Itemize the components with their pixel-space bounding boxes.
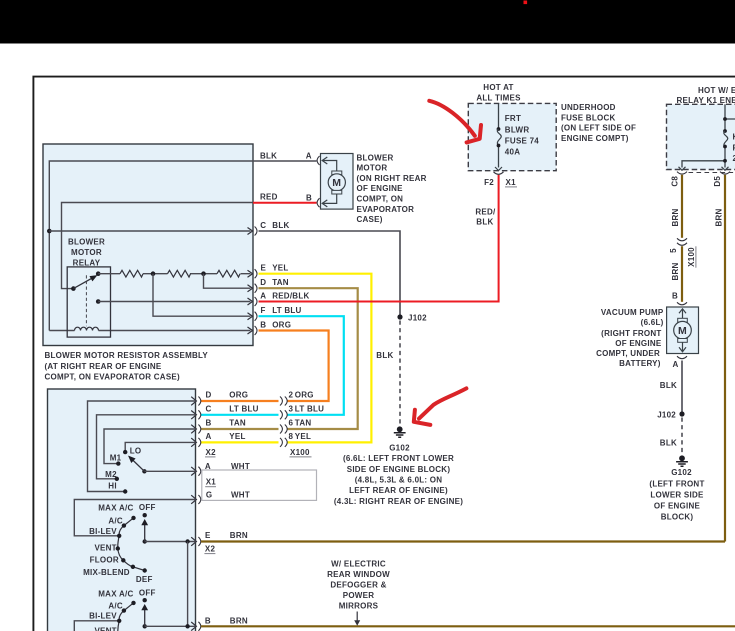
svg-text:BLOWER: BLOWER [357,153,394,162]
label G102 caption (right) [649,468,704,522]
wire BRN from D5 down to E BRN row [724,175,726,542]
svg-text:WHT: WHT [231,462,250,471]
wire WHT loop pin A to pin G [202,470,317,500]
svg-text:B: B [205,617,211,626]
connector arc pump pin A [677,356,687,359]
label M2 [105,470,117,479]
svg-text:OF ENGINE: OF ENGINE [654,501,701,510]
connector arcs at resistor box edge [255,227,257,336]
svg-text:WHT: WHT [231,491,250,500]
mode switch 2 feed loop [74,621,119,631]
svg-text:E: E [205,531,211,540]
wire C BLK row inside box [49,230,250,232]
label BRN (rotated, D5 wire) [714,208,723,226]
label wire RED/BLK [475,208,496,227]
wire B BRN row (exits right) [201,625,735,627]
svg-text:2: 2 [289,391,294,400]
wire BLK bus inside resistor box (left vertical + top row to pin A) [49,161,253,331]
relay NC contact node [96,299,101,304]
wire RED feed to relay common [62,203,254,289]
svg-text:FUSE BLOCK: FUSE BLOCK [561,113,616,122]
label VACUUM PUMP caption [596,308,664,368]
svg-text:HOT AT: HOT AT [483,83,513,92]
relay K1 fuse element [723,117,728,163]
svg-text:(LEFT FRONT: (LEFT FRONT [649,479,704,488]
label blower motor caption [357,153,427,224]
svg-text:G102: G102 [671,468,692,477]
wire BRN from C8 to X100 connector [681,175,683,238]
svg-text:5: 5 [669,248,678,253]
label wire RED / pin B [260,193,312,203]
lower connector X100 double arcs (pins 2,3,6,8) [280,397,287,447]
label F2 [484,178,494,187]
red cursor dot marker [524,1,528,5]
svg-text:A: A [672,360,678,369]
svg-text:8: 8 [289,432,294,441]
svg-text:COMPT, ON EVAPORATOR CASE): COMPT, ON EVAPORATOR CASE) [45,373,180,382]
connector F2/X1 arc with tail [494,172,504,175]
wire BLK dashed to ground G102 (right) [681,418,683,455]
wire tap1 to F LT BLU pin [153,274,251,317]
svg-text:BLOWER MOTOR RESISTOR ASSEMBLY: BLOWER MOTOR RESISTOR ASSEMBLY [45,351,209,360]
svg-text:J102: J102 [408,313,427,322]
svg-text:(ON RIGHT REAR: (ON RIGHT REAR [357,174,427,183]
svg-text:F2: F2 [484,178,494,187]
vacuum pump internal leads with arrows [679,309,686,352]
svg-text:40A: 40A [505,147,520,156]
svg-text:X1: X1 [206,478,217,487]
wire BLK dashed to ground G102 (left) [399,321,401,426]
svg-text:BRN: BRN [714,208,723,226]
svg-text:TAN: TAN [229,418,246,427]
label BRN (rotated, pump feed) [671,262,680,280]
label wire BLK / pin A [260,151,312,160]
svg-text:ORG: ORG [295,391,314,400]
label BRN (rotated, C8 wire) [671,208,680,226]
vacuum pump motor M symbol [674,318,692,342]
svg-text:LT BLU: LT BLU [229,404,258,413]
blower motor box [321,154,354,210]
fuse output arrow into connector [495,167,502,171]
HVAC control (mode/fan switch) module box [48,389,196,631]
fan switch lever with arrow [129,456,147,473]
vacuum pump box [667,307,699,354]
svg-text:BLK: BLK [660,381,677,390]
svg-text:M2: M2 [105,470,117,479]
svg-text:(RIGHT FRONT: (RIGHT FRONT [601,329,661,338]
label pin 6 TAN [289,418,312,427]
label X2 (underlined, E BRN row) [204,545,215,554]
mode switch 2 wiper wire to pin B BRN [145,625,196,627]
svg-text:DEFOGGER &: DEFOGGER & [330,581,386,590]
wire coil bottom row to B ORG pin [49,330,250,332]
label LO [130,446,142,455]
svg-text:MAX A/C: MAX A/C [98,504,133,513]
label J102 (right) [657,410,676,419]
node: BLK bus / C BLK junction [47,229,52,234]
svg-text:BRN: BRN [671,208,680,226]
svg-text:UNDERHOOD: UNDERHOOD [561,103,616,112]
label M1 [110,453,122,462]
underhood fuse block 2 (relay K1, dashed, clipped right) [667,104,735,169]
svg-text:LEFT REAR OF ENGINE): LEFT REAR OF ENGINE) [349,486,448,495]
pin D5 exit arrow [722,167,729,171]
svg-text:FLOOR: FLOOR [90,556,119,565]
svg-text:X100: X100 [687,247,696,267]
svg-text:X100: X100 [290,448,310,457]
svg-text:BLK: BLK [660,438,677,447]
relay switch lever with arrow [73,276,96,289]
label pin A wire YEL (lower) [206,432,246,441]
svg-text:D5: D5 [713,176,722,187]
wire BLK to blower motor pin A [253,160,317,162]
wire D TAN run [201,288,358,429]
resistor R3 [217,270,240,277]
wire F LT BLU run [201,316,344,415]
blower motor M1 symbol [328,171,345,194]
label X1 (underlined) [505,178,517,187]
splice node J102 (right) [679,411,684,416]
label HOT AT ALL TIMES [476,83,521,103]
svg-text:VACUUM PUMP: VACUUM PUMP [601,308,664,317]
svg-text:(4.3L: RIGHT REAR OF ENGINE): (4.3L: RIGHT REAR OF ENGINE) [334,497,463,506]
label pin E wire BRN [205,531,248,540]
wire E YEL run [201,274,371,443]
svg-text:BRN: BRN [230,617,248,626]
svg-text:ENGINE COMPT): ENGINE COMPT) [561,134,629,143]
svg-text:A: A [205,462,211,471]
svg-text:6: 6 [289,418,294,427]
svg-text:M: M [332,177,341,189]
label J102 (left) [408,313,427,322]
label pin B wire BRN (bottom) [205,617,248,626]
svg-text:A: A [260,291,266,300]
svg-text:(6.6L): (6.6L) [641,318,664,327]
fuse F74 feed wire [498,103,500,167]
wire A RED/BLK run to fuse F2 [259,175,499,302]
svg-text:HI: HI [108,482,117,491]
svg-text:COMPT, ON: COMPT, ON [357,195,404,204]
svg-text:ORG: ORG [272,320,291,329]
label BLK (right upper) [660,381,677,390]
label pin D wire TAN [260,278,289,287]
svg-text:BRN: BRN [671,262,680,280]
label pin B wire ORG [260,320,291,329]
svg-text:BLK: BLK [260,151,277,160]
connector arrows at HVAC box edge [191,397,196,631]
svg-text:G102: G102 [389,443,410,452]
wire BRN from X100 to vacuum pump pin B [681,246,683,302]
connector arc pump pin B [677,302,687,305]
svg-text:BLK: BLK [272,221,289,230]
label pin A wire RED/BLK [260,291,309,300]
svg-text:C: C [260,221,266,230]
underhood fuse block (dashed) [468,103,556,170]
svg-text:B: B [306,194,312,203]
svg-text:M: M [678,325,687,337]
svg-text:ORG: ORG [229,391,248,400]
label pin C wire LT BLU (lower) [206,404,259,413]
svg-text:BLK: BLK [476,217,493,226]
svg-text:RELAY: RELAY [73,259,101,268]
mode switch 2 selector arrow to OFF [142,598,148,629]
label FRT BLWR FUSE 74 40A [505,114,540,156]
label X1 (underlined, lower) [205,478,216,487]
labels mode switch 1 positions [98,504,133,513]
connector arc pin C8 with tail [677,172,687,175]
svg-text:OF ENGINE: OF ENGINE [615,339,662,348]
label pin A wire WHT [205,462,250,471]
relay NO contact node [96,271,101,276]
svg-text:X1: X1 [506,178,517,187]
connector arcs at HVAC box edge [198,397,200,631]
label pin C wire BLK [260,221,289,230]
svg-text:VENT: VENT [94,627,116,631]
svg-text:SIDE OF ENGINE BLOCK): SIDE OF ENGINE BLOCK) [347,465,451,474]
svg-text:RED/BLK: RED/BLK [272,291,309,300]
svg-text:LOWER SIDE: LOWER SIDE [650,490,704,499]
svg-text:YEL: YEL [229,432,245,441]
mode switch 2 contact arc (clipped) [118,603,134,631]
label X2 (underlined, fan rows) [205,448,216,457]
svg-text:A/C: A/C [108,516,123,525]
svg-text:YEL: YEL [295,432,311,441]
svg-text:A: A [206,432,212,441]
svg-text:HOT W/ E: HOT W/ E [698,86,735,95]
fan switch contact M1 [116,461,120,465]
annotation red arrow to fuse [429,101,481,143]
svg-text:MAX A/C: MAX A/C [98,590,133,599]
label pin F wire LT BLU [261,306,302,315]
svg-text:BLWR: BLWR [505,125,530,134]
svg-text:W/ ELECTRIC: W/ ELECTRIC [331,560,386,569]
fan switch feed wires inside HVAC box [88,401,196,492]
svg-text:X2: X2 [205,545,216,554]
svg-text:MOTOR: MOTOR [71,248,102,257]
label K1 fragments (clipped) [733,133,735,164]
svg-text:(AT RIGHT REAR OF ENGINE: (AT RIGHT REAR OF ENGINE [45,362,162,371]
svg-text:OF ENGINE: OF ENGINE [357,184,404,193]
resistor R1 [120,270,143,277]
svg-text:FRT: FRT [505,114,521,123]
svg-text:B: B [206,418,212,427]
node resistor tap 1 [151,271,156,276]
top black title bar [0,0,735,44]
blower motor connector arcs pins A,B [317,156,320,207]
wire resistor chain row (E YEL) [98,273,250,275]
label pin D wire ORG (lower) [206,391,249,400]
svg-text:E: E [261,264,267,273]
label G102 caption (left) [334,443,463,506]
label BLK (right dashed) [660,438,677,447]
blower motor resistor assembly module box [43,144,253,346]
mode switch 1 wiper wire to pin E BRN [145,541,196,543]
ground G102 (left) [394,426,406,437]
wire common link to mode switch 2 [187,542,189,627]
svg-text:RED: RED [260,193,278,202]
relay armature dashed link [85,275,87,326]
svg-text:OFF: OFF [139,503,156,512]
svg-text:BLOWER: BLOWER [68,238,105,247]
svg-text:(6.6L: LEFT FRONT LOWER: (6.6L: LEFT FRONT LOWER [343,454,454,463]
svg-text:LT BLU: LT BLU [295,404,324,413]
blower motor internal leads with arrows [322,157,337,207]
annotation red arrow to ground G102 [414,388,467,425]
fuse F74 element [497,127,502,147]
svg-text:RED/: RED/ [475,208,496,217]
svg-text:TAN: TAN [295,418,312,427]
label pin B (pump) [672,292,678,301]
svg-text:BLK: BLK [376,351,393,360]
fan switch contact LO [123,450,127,454]
label pin A (pump) [672,360,678,369]
svg-text:(ON LEFT SIDE OF: (ON LEFT SIDE OF [561,124,636,133]
label pin E wire YEL [261,264,289,273]
svg-text:LT BLU: LT BLU [272,306,301,315]
label X100 (rotated, underlined) [687,246,696,267]
svg-text:BLOCK): BLOCK) [661,512,694,521]
svg-text:MIX-BLEND: MIX-BLEND [83,568,130,577]
fan switch contact HI [123,489,127,493]
wire E BRN row to relay K1 pin D5 [201,540,725,542]
svg-text:(4.8L, 5.3L & 6.0L: ON: (4.8L, 5.3L & 6.0L: ON [355,476,443,485]
svg-text:A: A [306,152,312,161]
svg-text:B: B [260,320,266,329]
secondary dashed edge under relay K1 box [689,172,735,174]
label pin 8 YEL [289,432,312,441]
wire BLK pump to J102 (right) [681,361,683,414]
splice node J102 (left) [397,314,402,319]
inline connector X100 pin 5 arcs [677,238,687,245]
mode switch 2 contacts [117,601,136,623]
pin C8 exit arrow [679,167,686,171]
label W/ ELECTRIC REAR WINDOW DEFOGGER caption with arrow [327,560,390,626]
svg-text:BRN: BRN [230,531,248,540]
ground G102 (right) [676,455,688,466]
mode switch 1 contact arc [118,518,145,571]
label pin D5 (rotated) [713,176,722,187]
svg-text:MIRRORS: MIRRORS [339,602,379,611]
wire B ORG run [201,331,329,402]
svg-text:BATTERY): BATTERY) [619,359,661,368]
svg-text:M1: M1 [110,453,122,462]
mode switch 1 feed loop (G WHT to BI-LEV) [74,500,195,536]
fan switch contact M2 [115,477,119,481]
svg-text:REAR WINDOW: REAR WINDOW [327,570,390,579]
svg-text:C: C [206,404,212,413]
svg-text:MOTOR: MOTOR [357,164,388,173]
wire RED to blower motor pin B [253,202,317,204]
mode switch 1 selector arrow to OFF [142,513,148,544]
fan switch wiper wire to pin A WHT [144,470,195,472]
svg-text:VENT: VENT [94,544,116,553]
node resistor tap 2 [201,271,206,276]
svg-text:DEF: DEF [136,575,153,584]
node mode switch common junction [185,539,189,543]
node mode switch 2 junction [185,624,189,628]
label pin C8 (rotated) [671,176,680,187]
wire C BLK to splice J102 [259,231,401,316]
svg-text:BI-LEV: BI-LEV [89,612,117,621]
svg-text:3: 3 [289,404,294,413]
svg-text:A/C: A/C [108,602,123,611]
svg-text:D: D [206,391,212,400]
relay coil L1 [75,327,99,330]
svg-text:G: G [206,491,212,500]
label BLK (left dashed) [376,351,393,360]
resistor R2 [168,270,191,277]
label X100 (underlined) [290,448,312,457]
label UNDERHOOD FUSE BLOCK caption [561,103,636,143]
label pin 5 (rotated) [669,248,678,253]
svg-text:OFF: OFF [139,588,156,597]
label pin 3 LT BLU [289,404,325,413]
relay switch common node [71,286,76,291]
svg-text:X2: X2 [206,448,217,457]
svg-text:J102: J102 [657,410,676,419]
svg-text:CASE): CASE) [357,215,383,224]
svg-text:BI-LEV: BI-LEV [89,527,117,536]
relay K1 internal bus [682,104,735,167]
label HI [108,482,117,491]
svg-text:ALL TIMES: ALL TIMES [476,94,521,103]
svg-text:D: D [260,278,266,287]
svg-text:C8: C8 [671,176,680,187]
svg-text:F: F [261,306,266,315]
label pin G wire WHT [206,491,250,500]
svg-text:YEL: YEL [272,264,288,273]
blower motor relay box [67,267,110,337]
wire from NC contact to A RED/BLK pin [98,301,250,303]
label HOT W/ RELAY K1 (clipped) [677,86,735,105]
wire tap2 to D TAN pin [204,274,251,289]
connector arrows at resistor box edge (pins C,E,D,A,F,B) [248,228,253,335]
svg-text:LO: LO [130,446,142,455]
svg-text:FUSE 74: FUSE 74 [505,137,540,146]
label BLOWER MOTOR RESISTOR ASSEMBLY caption [45,351,209,381]
svg-text:B: B [672,292,678,301]
svg-text:TAN: TAN [272,278,289,287]
connector arc pin D5 with tail [720,172,730,175]
label pin B wire TAN (lower) [206,418,246,427]
label pin 2 ORG [289,391,314,400]
labels mode switch 2 positions [98,590,133,599]
mode switch 1 contacts [116,516,147,573]
svg-text:POWER: POWER [343,591,374,600]
label BLOWER MOTOR RELAY [68,238,105,268]
svg-text:COMPT, UNDER: COMPT, UNDER [596,349,660,358]
svg-text:EVAPORATOR: EVAPORATOR [357,205,415,214]
svg-text:RELAY K1 ENE: RELAY K1 ENE [677,96,735,105]
